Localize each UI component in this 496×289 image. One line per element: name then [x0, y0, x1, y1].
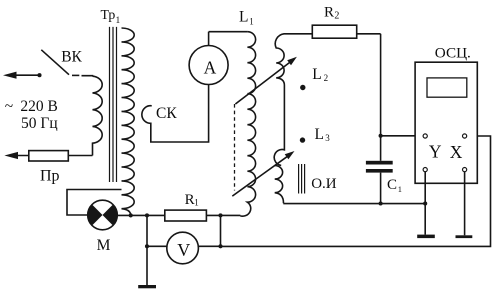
- capacitor C1: [366, 161, 393, 165]
- oscilloscope screen: [427, 78, 467, 97]
- arrowhead left bottom: [4, 152, 18, 159]
- svg-text:СК: СК: [156, 105, 177, 122]
- motor M branch wire: [67, 190, 122, 216]
- resistor R2: [312, 25, 356, 38]
- svg-text:X: X: [450, 142, 463, 162]
- inductor L3 section: [275, 166, 284, 204]
- node: L2 polarity dot: [300, 85, 305, 90]
- svg-text:О.И: О.И: [311, 176, 337, 192]
- wire: primary bottom to fuse: [17, 155, 93, 157]
- svg-text:R: R: [185, 192, 195, 208]
- wire: long bottom wire to scope X: [221, 136, 491, 246]
- node: switch pivot dot: [37, 73, 41, 77]
- svg-text:2: 2: [324, 73, 329, 83]
- arrow 1 (upper): [235, 63, 289, 104]
- svg-text:Пр: Пр: [40, 168, 60, 185]
- wire: Y lower to ground: [424, 172, 426, 235]
- arrowhead left top: [3, 72, 17, 79]
- terminal X lower: [463, 168, 467, 172]
- node: R1 right dot: [218, 213, 222, 217]
- svg-text:М: М: [97, 237, 111, 254]
- wire: top bus to L1: [209, 31, 248, 33]
- terminal Y lower: [423, 168, 427, 172]
- node: Y branch dot: [379, 134, 383, 138]
- svg-text:1: 1: [249, 17, 254, 27]
- oscilloscope box: [415, 62, 477, 183]
- sliding contact SK hook: [142, 85, 209, 143]
- wire: vertical to V and ground: [146, 215, 148, 285]
- dashed core line: [234, 104, 236, 191]
- svg-text:L: L: [312, 66, 321, 83]
- node: bus dot at x147: [145, 213, 149, 217]
- ground bar Y: [417, 235, 435, 239]
- svg-text:Y: Y: [429, 142, 442, 162]
- svg-text:L: L: [239, 9, 248, 26]
- svg-text:С: С: [387, 177, 397, 193]
- ammeter A: [189, 46, 228, 85]
- svg-text:А: А: [204, 58, 217, 78]
- svg-text:~: ~: [5, 98, 13, 115]
- terminal Y upper: [423, 134, 427, 138]
- inductor L1: [240, 32, 255, 216]
- fuse Pr: [29, 151, 69, 161]
- wire: ammeter top lead: [208, 32, 210, 46]
- node: secondary tail junction: [129, 213, 133, 217]
- svg-text:ОСЦ.: ОСЦ.: [435, 44, 471, 61]
- resistor R1: [165, 210, 207, 221]
- ground center bar: [138, 285, 156, 288]
- transformer Tr1 primary winding: [93, 76, 103, 155]
- svg-text:L: L: [315, 126, 324, 143]
- transformer Tr1 secondary winding: [122, 28, 135, 215]
- svg-text:R: R: [324, 4, 334, 20]
- wire: V right lead: [198, 245, 220, 247]
- O.I core marker: [298, 164, 300, 194]
- node: Y ground dot: [423, 201, 427, 205]
- node: bottom wire dot: [218, 244, 222, 248]
- wire: R2 right vertical down to C1: [380, 34, 382, 161]
- svg-text:Тр: Тр: [101, 7, 116, 22]
- inductor L2 section: [274, 34, 312, 166]
- wire: V left lead: [147, 245, 167, 247]
- svg-text:3: 3: [325, 133, 330, 143]
- terminal X upper: [463, 134, 467, 138]
- svg-text:ВК: ВК: [61, 48, 82, 65]
- wire: C1 bottom lead: [380, 173, 382, 204]
- node: C1 bottom dot: [379, 201, 383, 205]
- svg-text:1: 1: [398, 184, 402, 194]
- wire: bottom bus L3 to scope ground: [283, 203, 425, 205]
- svg-text:1: 1: [194, 197, 199, 207]
- wire: R2 right lead: [357, 33, 381, 35]
- node: L3 polarity dot: [300, 137, 305, 142]
- transformer Tr1 core: [109, 27, 111, 182]
- svg-text:220 В: 220 В: [20, 98, 57, 115]
- svg-text:50 Гц: 50 Гц: [21, 115, 58, 132]
- wire: R1 right vertical: [220, 215, 222, 246]
- switch VK blade: [41, 50, 69, 75]
- wire: to Y input: [381, 135, 424, 137]
- wire: X lower to ground: [464, 172, 466, 236]
- ground bar X: [456, 235, 473, 238]
- wire: left top arrow lead: [14, 74, 40, 76]
- voltmeter V: [167, 232, 199, 264]
- node: V left dot: [145, 244, 149, 248]
- wire: bus R1 to L1 tail: [206, 214, 240, 216]
- arrow 2 (lower): [232, 157, 287, 196]
- switch VK contact dash: [72, 74, 79, 76]
- motor M: [88, 200, 118, 230]
- svg-text:2: 2: [334, 11, 339, 22]
- wire: bus motor to R1: [117, 214, 165, 216]
- svg-text:V: V: [177, 240, 190, 260]
- wire: switch to transformer primary top: [82, 75, 93, 78]
- svg-text:1: 1: [116, 16, 121, 26]
